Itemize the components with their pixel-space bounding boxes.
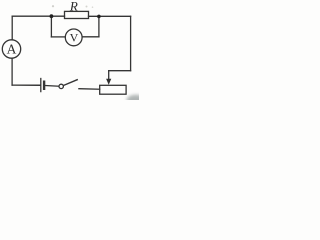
rheostat wiper stem [108,71,110,81]
wire left vertical lower [11,58,13,85]
resistor R1 [65,11,89,18]
voltmeter branch left vertical [50,16,52,37]
rheostat R2 box [100,85,126,94]
wire wiper horizontal [109,70,131,72]
battery cell short plate [43,82,45,89]
wire resistor to right junction [89,15,131,17]
wire bottom-left horizontal [12,84,40,86]
scan shadow bottom-right [127,95,146,105]
scan speck right of R [86,6,88,8]
svg-text:A: A [7,41,17,56]
scan speck left of R [52,5,54,7]
switch S1 pivot circle [59,84,63,88]
node junction dot left [50,14,54,18]
wire switch to rheostat [79,88,100,91]
switch S1 lever [63,80,77,86]
node junction dot right [97,15,101,19]
voltmeter V1 circle [65,29,82,46]
wire right vertical [130,16,132,70]
wire left vertical upper [11,16,13,40]
wire battery to switch [45,85,58,88]
rheostat wiper arrowhead [106,79,111,85]
ammeter A1 circle [2,40,20,58]
wire to voltmeter left [51,36,65,38]
wire voltmeter right [82,36,99,38]
svg-text:V: V [70,31,79,45]
wire top-left horizontal [12,15,64,17]
svg-text:R: R [69,0,78,13]
voltmeter branch right vertical [98,16,100,37]
scan speck far right of R [92,6,94,8]
battery cell long plate [40,79,42,92]
